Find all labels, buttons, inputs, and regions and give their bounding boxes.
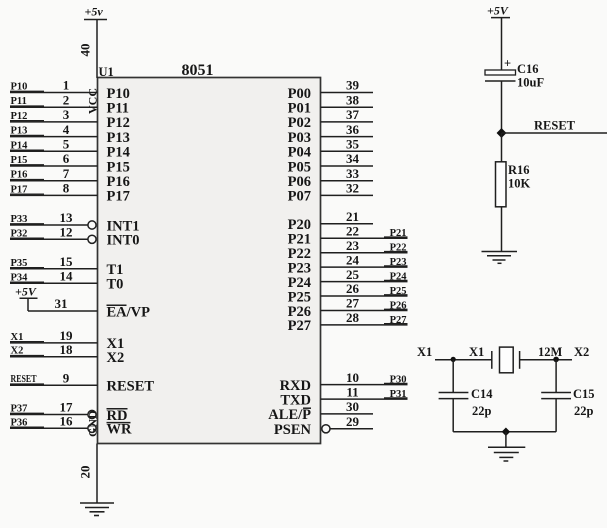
net label P37 underline — [10, 412, 44, 414]
wire pin 29 (PSEN) — [330, 428, 373, 430]
svg-text:27: 27 — [346, 296, 360, 311]
svg-text:INT0: INT0 — [107, 233, 140, 249]
svg-text:31: 31 — [55, 296, 68, 311]
svg-text:PSEN: PSEN — [274, 422, 312, 438]
svg-text:19: 19 — [60, 328, 74, 343]
svg-text:P02: P02 — [288, 115, 311, 131]
net label P27 underline — [384, 323, 408, 325]
svg-text:P00: P00 — [288, 86, 311, 102]
net label P35 underline — [10, 267, 44, 269]
svg-text:+5v: +5v — [85, 5, 104, 19]
bubble pin 17 — [88, 410, 96, 418]
net label X1 underline — [10, 341, 44, 343]
svg-text:39: 39 — [346, 78, 360, 93]
svg-text:X2: X2 — [107, 350, 125, 366]
svg-text:P22: P22 — [390, 243, 407, 254]
wire pin 5 (P14) — [10, 150, 98, 152]
svg-text:P27: P27 — [390, 315, 407, 326]
net label P15 underline — [10, 164, 44, 166]
wire pin 25 (P24) — [321, 281, 408, 283]
svg-text:25: 25 — [346, 267, 360, 282]
svg-text:22p: 22p — [574, 404, 594, 418]
svg-text:X1: X1 — [469, 345, 484, 359]
svg-text:X2: X2 — [574, 345, 589, 359]
net label P14 underline — [10, 149, 44, 151]
svg-text:P01: P01 — [288, 101, 311, 117]
svg-text:P33: P33 — [11, 214, 28, 225]
svg-text:21: 21 — [346, 209, 359, 224]
wire bottom joining caps — [453, 431, 556, 433]
svg-text:26: 26 — [346, 281, 360, 296]
svg-text:P06: P06 — [288, 174, 311, 190]
svg-text:22p: 22p — [472, 404, 492, 418]
svg-text:18: 18 — [60, 342, 74, 357]
svg-text:TXD: TXD — [280, 392, 311, 408]
wire pin 17 (RD) — [10, 414, 88, 416]
wire pin 9 (RESET) — [10, 384, 98, 386]
wire +5v to chip pin 40 — [96, 20, 98, 79]
wire pin 26 (P25) — [321, 295, 408, 297]
svg-text:10K: 10K — [508, 177, 531, 191]
wire pin 38 (P01) — [321, 106, 374, 108]
capacitor C14 plates — [439, 392, 469, 394]
svg-text:P10: P10 — [107, 86, 130, 102]
ground (bottom left) — [80, 503, 114, 516]
capacitor C16 bottom plate — [485, 80, 516, 82]
wire pin 7 (P16) — [10, 180, 98, 182]
svg-text:+5V: +5V — [487, 4, 509, 18]
svg-text:+5V: +5V — [15, 285, 37, 299]
svg-text:P13: P13 — [11, 126, 28, 137]
svg-text:ALE/P: ALE/P — [268, 407, 311, 423]
wire C14 down — [452, 399, 454, 432]
svg-text:P31: P31 — [390, 389, 407, 400]
svg-text:P34: P34 — [11, 272, 29, 283]
svg-text:10uF: 10uF — [517, 76, 544, 90]
svg-text:4: 4 — [63, 122, 70, 137]
node junction ground branch — [502, 428, 510, 436]
svg-text:P25: P25 — [390, 286, 407, 297]
resistor R16 body — [496, 162, 507, 207]
svg-text:P36: P36 — [11, 417, 28, 428]
svg-text:+: + — [504, 57, 511, 71]
crystal Y1 right plate — [519, 351, 521, 369]
wire pin 6 (P15) — [10, 165, 98, 167]
svg-text:40: 40 — [78, 44, 93, 57]
svg-text:P14: P14 — [11, 140, 29, 151]
svg-text:P21: P21 — [390, 228, 407, 239]
wire pin 20 chip bottom to ground — [96, 444, 98, 504]
svg-text:29: 29 — [346, 414, 360, 429]
wire X1 to crystal — [435, 359, 492, 361]
svg-text:P14: P14 — [107, 145, 130, 161]
net label P36 underline — [10, 426, 44, 428]
svg-text:38: 38 — [346, 92, 360, 107]
svg-text:22: 22 — [346, 223, 359, 238]
svg-text:P12: P12 — [107, 115, 130, 131]
svg-text:24: 24 — [346, 252, 360, 267]
wire pin 10 (RXD) — [321, 384, 408, 386]
svg-text:P17: P17 — [11, 184, 28, 195]
svg-text:1: 1 — [63, 78, 70, 93]
wire pin 39 (P00) — [321, 92, 374, 94]
wire pin 4 (P13) — [10, 136, 98, 138]
wire pin 19 (X1) — [10, 342, 98, 344]
svg-text:P04: P04 — [288, 145, 311, 161]
wire pin 32 (P07) — [321, 194, 374, 196]
wire C16 to junction — [501, 81, 503, 133]
wire X1 branch down to C14 — [452, 359, 454, 392]
svg-text:RESET: RESET — [107, 379, 155, 395]
svg-text:P37: P37 — [11, 404, 28, 415]
svg-text:P07: P07 — [288, 189, 311, 205]
svg-text:34: 34 — [346, 151, 360, 166]
net label P17 underline — [10, 193, 44, 195]
svg-text:13: 13 — [60, 210, 74, 225]
net label P32 underline — [10, 237, 44, 239]
wire pin 36 (P03) — [321, 136, 374, 138]
wire to ground (crystal) — [505, 432, 507, 448]
svg-text:37: 37 — [346, 107, 360, 122]
svg-text:RESET: RESET — [11, 374, 37, 385]
wire pin 34 (P05) — [321, 165, 374, 167]
wire R16 to ground — [501, 207, 503, 252]
capacitor C15 plates — [541, 392, 571, 394]
wire pin 27 (P26) — [321, 310, 408, 312]
wire pin 21 (P20) — [321, 223, 374, 225]
node junction X2 branch — [553, 357, 559, 363]
wire pin 33 (P06) — [321, 180, 374, 182]
net label P13 underline — [10, 134, 44, 136]
svg-text:6: 6 — [63, 151, 70, 166]
wire C15 down — [555, 399, 557, 432]
wire pin 23 (P22) — [321, 252, 408, 254]
svg-text:5: 5 — [63, 137, 70, 152]
overline WR — [107, 422, 131, 424]
wire pin 24 (P23) — [321, 266, 408, 268]
overline RD — [107, 408, 128, 410]
node junction X1 branch — [451, 357, 456, 362]
net label P25 underline — [384, 294, 408, 296]
svg-text:P17: P17 — [107, 189, 130, 205]
svg-text:RESET: RESET — [534, 119, 576, 133]
svg-text:P15: P15 — [11, 155, 28, 166]
ground (reset circuit) — [482, 252, 518, 264]
wire +5V stub down — [27, 298, 29, 311]
node RESET junction — [497, 128, 507, 138]
bubble pin 13 — [88, 221, 96, 229]
svg-text:R16: R16 — [508, 163, 530, 177]
wire X2 branch down to C15 — [555, 359, 557, 392]
svg-text:15: 15 — [60, 254, 74, 269]
crystal Y1 left plate — [491, 351, 493, 369]
svg-text:X2: X2 — [11, 346, 24, 357]
svg-text:P27: P27 — [288, 318, 311, 334]
net label X2 underline — [10, 355, 44, 357]
bubble pin 29 — [322, 425, 330, 433]
svg-text:P11: P11 — [107, 101, 130, 117]
wire pin 2 (P11) — [10, 106, 98, 108]
wire pin 8 (P17) — [10, 194, 98, 196]
svg-text:U1: U1 — [99, 65, 114, 79]
svg-text:P15: P15 — [107, 159, 130, 175]
net label P31 underline — [384, 397, 408, 399]
overline EA — [107, 304, 127, 306]
wire RESET to right edge — [502, 132, 607, 134]
svg-text:X1: X1 — [11, 332, 24, 343]
wire pin 1 (P10) — [10, 92, 98, 94]
svg-text:8051: 8051 — [182, 62, 214, 79]
svg-text:P16: P16 — [11, 170, 28, 181]
svg-text:P35: P35 — [11, 258, 28, 269]
net label RESET underline — [10, 383, 44, 385]
wire pin 28 (P27) — [321, 324, 408, 326]
svg-text:C14: C14 — [471, 387, 493, 401]
svg-text:3: 3 — [63, 107, 70, 122]
wire pin 22 (P21) — [321, 237, 408, 239]
net label P34 underline — [10, 281, 44, 283]
wire pin 30 (ALE/P) — [321, 413, 374, 415]
svg-text:35: 35 — [346, 137, 360, 152]
svg-text:P23: P23 — [390, 257, 407, 268]
svg-text:P11: P11 — [11, 96, 27, 107]
wire pin 31 (EA/VP) — [28, 310, 98, 312]
wire pin 37 (P02) — [321, 121, 374, 123]
wire crystal to X2 — [520, 359, 572, 361]
svg-text:11: 11 — [346, 384, 358, 399]
svg-text:32: 32 — [346, 181, 359, 196]
net label P26 underline — [384, 308, 408, 310]
svg-text:30: 30 — [346, 399, 359, 414]
svg-text:16: 16 — [60, 414, 74, 429]
svg-text:P24: P24 — [390, 272, 408, 283]
wire pin 14 (T0) — [10, 282, 98, 284]
wire pin 12 (INT0) — [10, 238, 88, 240]
svg-text:12M: 12M — [538, 345, 563, 359]
svg-text:P30: P30 — [390, 375, 407, 386]
net label P22 underline — [384, 251, 408, 253]
wire pin 13 (INT1) — [10, 224, 88, 226]
svg-text:33: 33 — [346, 166, 360, 181]
svg-text:P12: P12 — [11, 111, 28, 122]
wire pin 35 (P04) — [321, 150, 374, 152]
svg-text:P16: P16 — [107, 174, 130, 190]
net label P23 underline — [384, 265, 408, 267]
overline ALE/P — [303, 407, 311, 409]
ground (crystal circuit) — [488, 447, 525, 461]
svg-text:36: 36 — [346, 122, 360, 137]
svg-text:17: 17 — [60, 400, 74, 415]
net label P24 underline — [384, 279, 408, 281]
bubble pin 16 — [88, 424, 96, 432]
svg-text:28: 28 — [346, 310, 360, 325]
svg-text:C16: C16 — [517, 62, 539, 76]
wire +5V to C16 — [501, 18, 503, 70]
net label P21 underline — [384, 236, 408, 238]
net label P12 underline — [10, 120, 44, 122]
svg-text:2: 2 — [63, 92, 70, 107]
svg-text:T0: T0 — [107, 277, 124, 293]
svg-text:P05: P05 — [288, 159, 311, 175]
wire pin 3 (P12) — [10, 121, 98, 123]
svg-text:P26: P26 — [390, 301, 407, 312]
svg-text:8: 8 — [63, 181, 70, 196]
svg-text:WR: WR — [107, 422, 133, 438]
chip U1 body — [98, 78, 321, 444]
svg-text:P03: P03 — [288, 130, 311, 146]
svg-text:10: 10 — [346, 370, 359, 385]
wire pin 11 (TXD) — [321, 398, 408, 400]
svg-text:P32: P32 — [11, 228, 28, 239]
svg-text:20: 20 — [78, 466, 93, 479]
svg-text:14: 14 — [60, 269, 74, 284]
net label P16 underline — [10, 179, 44, 181]
crystal Y1 body — [500, 347, 514, 373]
wire pin 15 (T1) — [10, 268, 98, 270]
bubble pin 12 — [88, 235, 96, 243]
svg-text:EA/VP: EA/VP — [107, 304, 151, 320]
wire pin 16 (WR) — [10, 427, 88, 429]
svg-text:X1: X1 — [417, 345, 432, 359]
svg-text:9: 9 — [63, 370, 70, 385]
capacitor C16 plus plate — [485, 70, 516, 75]
net label P11 underline — [10, 105, 44, 107]
net label P30 underline — [384, 382, 408, 384]
svg-text:23: 23 — [346, 238, 360, 253]
svg-text:P13: P13 — [107, 130, 130, 146]
wire pin 18 (X2) — [10, 356, 98, 358]
net label P33 underline — [10, 223, 44, 225]
net label P10 underline — [10, 90, 44, 92]
svg-text:7: 7 — [63, 166, 70, 181]
svg-text:P10: P10 — [11, 82, 28, 93]
svg-text:12: 12 — [60, 225, 73, 240]
svg-text:C15: C15 — [573, 387, 595, 401]
wire junction to R16 — [501, 133, 503, 162]
